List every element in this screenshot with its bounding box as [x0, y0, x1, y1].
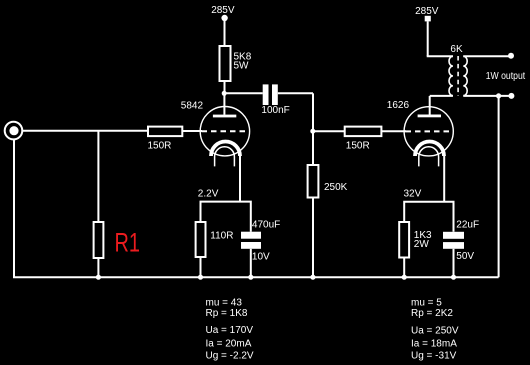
wire 5K8 to anode node — [224, 81, 226, 93]
wire 250K to ground bus — [312, 198, 314, 278]
wire node B to 250K — [312, 131, 314, 165]
grid U2 (dashed) — [406, 130, 451, 132]
svg-text:470uF: 470uF — [252, 220, 280, 231]
svg-text:5842: 5842 — [181, 100, 204, 111]
wire secondary top to output + — [463, 55, 509, 57]
transformer T1 primary winding — [449, 56, 453, 95]
svg-text:Ia = 20mA: Ia = 20mA — [206, 338, 252, 349]
node ground R1 — [96, 275, 101, 280]
capacitor 470uF plates — [241, 232, 261, 249]
wire secondary bottom to output - — [463, 95, 509, 97]
wire 110R to ground — [200, 257, 202, 277]
node output - terminal — [508, 93, 514, 99]
resistor 110R — [196, 222, 206, 257]
svg-text:Ua = 170V: Ua = 170V — [206, 325, 254, 336]
svg-text:110R: 110R — [210, 231, 233, 242]
svg-text:Ug = -31V: Ug = -31V — [411, 351, 457, 362]
tube U1 5842 envelope — [200, 107, 249, 156]
svg-text:2W: 2W — [414, 239, 430, 250]
wire anode node to 100nF — [224, 92, 263, 94]
ground bus — [13, 276, 499, 278]
wire 1K3 to ground — [403, 258, 405, 278]
node output + terminal — [508, 53, 514, 59]
heater U1 — [215, 147, 235, 167]
svg-text:1626: 1626 — [387, 100, 410, 111]
input terminal J1 — [5, 122, 23, 140]
svg-text:10V: 10V — [252, 252, 270, 263]
node B+ 285V terminal (stage 1) — [221, 15, 227, 21]
node secondary-ground junction — [496, 93, 501, 98]
capacitor 100nF — [263, 84, 278, 105]
svg-text:285V: 285V — [415, 6, 439, 17]
wire 22uF to ground — [453, 249, 455, 277]
svg-text:100nF: 100nF — [261, 105, 289, 116]
svg-text:150R: 150R — [346, 141, 370, 152]
svg-text:285V: 285V — [211, 5, 235, 16]
svg-text:22uF: 22uF — [456, 220, 479, 231]
resistor R1 — [94, 222, 104, 258]
svg-text:R1: R1 — [115, 228, 141, 258]
resistor 5K8 5W — [220, 46, 231, 81]
svg-text:Rp = 2K2: Rp = 2K2 — [411, 308, 453, 319]
svg-text:250K: 250K — [324, 182, 348, 193]
wire 150R to grid of U1 — [182, 130, 202, 132]
svg-text:1W output: 1W output — [486, 71, 526, 82]
wire node B to 150R (2) — [313, 130, 345, 132]
cathode U2 (thick arc) — [415, 142, 444, 157]
wire down to node B — [312, 93, 314, 131]
node ground 1K3 — [402, 275, 407, 280]
wire cathode rail 2 — [404, 202, 453, 232]
grid U1 (dashed) — [202, 130, 247, 132]
transformer T1 secondary winding — [463, 56, 467, 95]
wire B+2 down — [427, 21, 429, 56]
resistor 150R (1) — [148, 127, 182, 137]
svg-text:6K: 6K — [450, 44, 463, 55]
svg-text:Ua = 250V: Ua = 250V — [411, 325, 459, 336]
resistor 250K — [308, 165, 319, 198]
wire input down to ground — [13, 139, 15, 277]
wire R1 to ground — [97, 258, 99, 277]
wire input node to R1 — [97, 131, 99, 222]
node ground 110R — [198, 275, 203, 280]
wire 150R to grid of U2 — [381, 130, 406, 132]
svg-text:Ug = -2.2V: Ug = -2.2V — [206, 351, 254, 362]
wire cathode U2 down — [443, 154, 445, 202]
node ground 250K — [310, 275, 315, 280]
wire cathode U1 down — [239, 154, 241, 202]
node ground 22uF — [451, 275, 456, 280]
wire 470uF to ground — [250, 249, 252, 277]
tube U2 1626 envelope — [404, 107, 453, 156]
wire 100nF to node B — [278, 92, 313, 94]
cathode U1 (thick arc) — [211, 142, 240, 156]
svg-text:2.2V: 2.2V — [198, 188, 219, 199]
wire cathode rail 1 — [201, 202, 251, 232]
node ground 470uF — [248, 275, 253, 280]
capacitor 22uF plates — [443, 232, 464, 249]
svg-text:Rp = 1K8: Rp = 1K8 — [206, 308, 248, 319]
svg-text:150R: 150R — [148, 141, 172, 152]
svg-text:mu = 43: mu = 43 — [206, 297, 243, 308]
svg-text:50V: 50V — [456, 251, 474, 262]
svg-text:5W: 5W — [234, 61, 250, 72]
svg-text:Ia = 18mA: Ia = 18mA — [411, 338, 457, 349]
transformer T1 core (dashed) — [457, 56, 459, 96]
anode plate U1 — [213, 115, 236, 118]
wire primary bottom to anode U2 — [430, 95, 453, 97]
resistor 150R (2) — [345, 127, 382, 137]
svg-text:32V: 32V — [404, 189, 422, 200]
wire anode lead U2 — [429, 96, 431, 115]
heater U2 — [419, 147, 439, 167]
wire B+2 to primary top — [427, 55, 453, 57]
wire B+ to 5K8 — [224, 19, 226, 46]
node anode junction A1 — [222, 91, 227, 96]
wire input to 150R (1) — [22, 130, 148, 132]
anode plate U2 — [418, 115, 441, 118]
resistor 1K3 2W — [399, 222, 409, 258]
node B+ 285V terminal (stage 2) — [425, 16, 431, 22]
wire anode lead U1 — [223, 93, 225, 114]
wire output ground return — [498, 96, 500, 277]
node B junction — [310, 129, 315, 134]
svg-text:mu = 5: mu = 5 — [411, 298, 442, 309]
